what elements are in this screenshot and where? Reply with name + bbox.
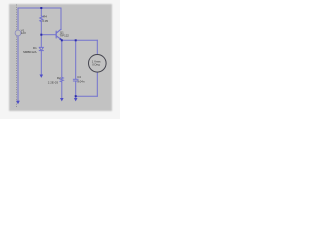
junction top rail / R1: [40, 7, 42, 9]
wire meter bottom lead: [96, 72, 98, 96]
junction C1 top: [75, 39, 77, 41]
svg-text:TIP122: TIP122: [60, 33, 70, 37]
transistor emitter arrow: [59, 38, 62, 41]
wire top rail: [18, 7, 61, 9]
wire ground stub below bottom rail: [75, 96, 77, 98]
ground arrow middle: [40, 75, 44, 78]
wire middle vertical mid (R1 to D1): [40, 22, 42, 47]
ground arrow left: [16, 101, 20, 104]
wire middle vertical upper (to R1): [40, 8, 42, 16]
svg-text:0 Deg: 0 Deg: [92, 63, 100, 67]
junction base lead: [40, 34, 42, 36]
wire collector vertical: [60, 8, 62, 29]
meter M1 circle: [89, 55, 107, 73]
svg-text:12V: 12V: [21, 31, 26, 35]
svg-text:3.04n: 3.04n: [77, 80, 85, 84]
wire bottom rail: [76, 95, 98, 97]
resistor R1: [40, 16, 43, 22]
junction emitter corner: [61, 39, 63, 41]
wire emitter branch vertical (to R2): [61, 40, 63, 77]
resistor R2: [60, 77, 63, 82]
wire base lead: [41, 34, 56, 36]
capacitor C1: [73, 79, 78, 81]
wire left selection dashes: [16, 5, 18, 108]
junction bottom rail: [75, 95, 77, 97]
svg-text:SMBD12A: SMBD12A: [23, 50, 37, 54]
wire left vertical lower: [17, 36, 19, 101]
wire meter top lead: [96, 40, 98, 54]
svg-text:2.2E-03: 2.2E-03: [48, 80, 59, 84]
diode D1: [39, 47, 43, 50]
svg-text:0.05: 0.05: [42, 19, 48, 23]
source V1 circle: [15, 30, 21, 36]
wire below R2: [61, 82, 63, 98]
wire left vertical upper: [17, 8, 19, 30]
wire middle vertical low (D1 to ground): [40, 51, 42, 75]
svg-text:C4: C4: [77, 75, 81, 79]
wire C1 bottom lead: [75, 81, 77, 96]
transistor Q1: [56, 29, 62, 40]
schematic sheet background: [9, 4, 112, 111]
wire emitter rail: [62, 39, 98, 41]
wire C1 top lead: [75, 40, 77, 79]
ground arrow R2: [60, 98, 64, 101]
ground arrow C1: [74, 98, 78, 101]
